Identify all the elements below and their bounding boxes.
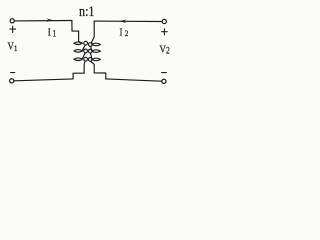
inductor L1 turn 3 — [74, 58, 83, 61]
inductor L2 secondary lead-in — [92, 21, 95, 44]
wire primary bottom jog — [73, 73, 84, 79]
svg-text:I2: I2 — [119, 27, 128, 39]
svg-text:V1: V1 — [8, 41, 18, 53]
inductor L2 link 1-2 — [91, 46, 92, 50]
wire bottom-left — [14, 79, 73, 81]
inductor L1 tail — [84, 61, 85, 73]
plus sign left — [10, 26, 16, 32]
terminal bottom-right — [162, 79, 166, 83]
minus sign right — [162, 72, 167, 74]
terminal bottom-left — [10, 79, 14, 83]
arrow I1 direction — [46, 18, 53, 22]
inductor L1 turn 2 — [74, 50, 83, 53]
terminal top-right — [162, 19, 166, 23]
inductor L2 turn 2 — [92, 50, 101, 53]
inductor L2 link 2-3 — [91, 53, 92, 59]
inductor L2 turn 3 — [92, 58, 101, 61]
inductor L1 crossover loop 1 — [84, 41, 88, 45]
minus sign left — [11, 72, 15, 74]
inductor L2 crossover loop 2 — [88, 49, 92, 53]
svg-text:n:1: n:1 — [79, 4, 95, 20]
inductor L2 crossover loop 3 — [88, 58, 92, 62]
inductor L2 crossover loop 1 — [88, 43, 92, 47]
svg-text:V2: V2 — [160, 44, 170, 56]
wire jog down to primary top — [72, 21, 79, 32]
wire bottom-right — [106, 79, 162, 81]
wire secondary bottom jog — [94, 73, 106, 79]
inductor L2 tail — [91, 61, 95, 73]
inductor L1 link 1-2 — [83, 45, 86, 51]
inductor L1 crossover loop 2 — [84, 49, 88, 53]
terminal top-left — [10, 19, 14, 23]
svg-text:I1: I1 — [48, 27, 57, 39]
inductor L1 crossover loop 3 — [84, 57, 88, 61]
inductor L1 link 2-3 — [83, 53, 86, 59]
inductor L1 turn 1 — [74, 42, 83, 45]
arrow I2 direction — [119, 19, 127, 23]
wire top-right — [94, 20, 162, 22]
plus sign right — [162, 29, 168, 35]
inductor L1 primary lead-in — [79, 31, 83, 43]
inductor L2 turn 1 — [92, 43, 101, 46]
wire top-left — [15, 20, 72, 22]
